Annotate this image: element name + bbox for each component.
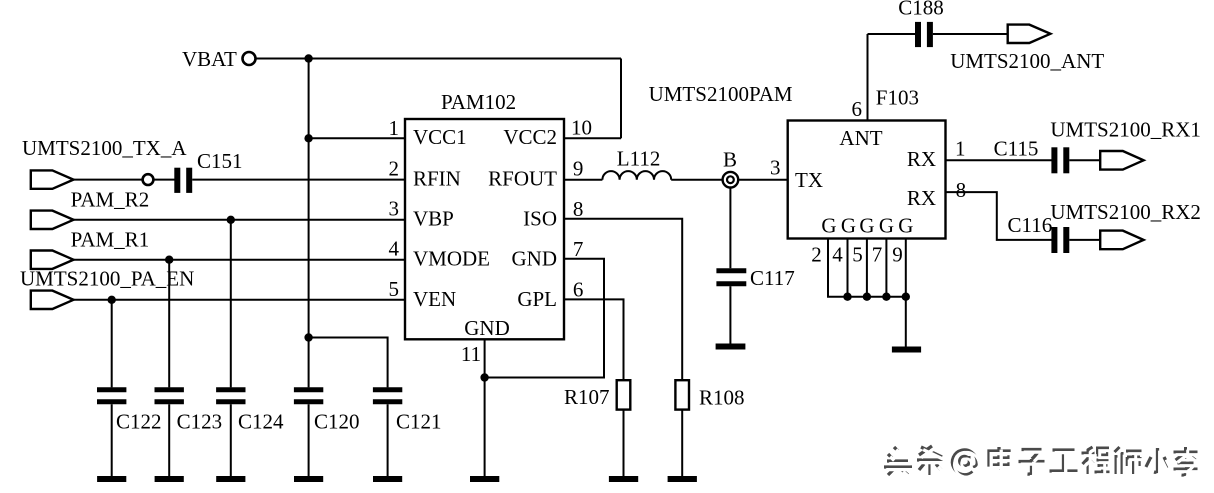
svg-text:C116: C116 bbox=[1008, 213, 1053, 237]
node B test point bbox=[723, 172, 739, 188]
wire main vertical rail bbox=[308, 58, 310, 388]
svg-text:5: 5 bbox=[852, 243, 863, 267]
svg-text:R107: R107 bbox=[564, 385, 610, 409]
wire pin1 VCC1 bbox=[309, 137, 405, 139]
ground C117 bbox=[716, 344, 746, 350]
junction PA_EN/C122 bbox=[108, 296, 116, 304]
test point circle bbox=[143, 174, 154, 185]
ground pin11 bbox=[470, 476, 499, 482]
wire pin1 RX to C115 bbox=[946, 159, 1052, 161]
wire G pin 2 bbox=[828, 239, 906, 297]
wire pin9 RFOUT to L112 bbox=[564, 179, 602, 181]
svg-text:VBAT: VBAT bbox=[182, 47, 237, 71]
svg-text:VMODE: VMODE bbox=[413, 247, 490, 271]
svg-text:GND: GND bbox=[512, 247, 558, 271]
svg-text:C115: C115 bbox=[994, 136, 1039, 160]
connector UMTS2100_PA_EN bbox=[31, 291, 74, 309]
wire G pin 9 to ground bbox=[905, 239, 907, 347]
svg-text:G: G bbox=[841, 213, 856, 237]
wire C116 to RX2 connector bbox=[1069, 239, 1101, 241]
capacitor C121 bbox=[373, 387, 402, 392]
svg-text:4: 4 bbox=[389, 237, 400, 261]
wire ANT pin6 vertical bbox=[867, 34, 869, 121]
svg-text:RFOUT: RFOUT bbox=[488, 167, 557, 191]
junction G7 bbox=[882, 293, 890, 301]
capacitor C120 bbox=[294, 387, 323, 392]
svg-text:C122: C122 bbox=[116, 410, 162, 434]
connector UMTS2100_RX1 bbox=[1100, 151, 1143, 170]
wire C120 to ground bbox=[308, 404, 310, 476]
wire pin6 GPL to R107 bbox=[564, 299, 624, 380]
capacitor C123 bbox=[155, 387, 184, 392]
svg-text:C151: C151 bbox=[197, 149, 243, 173]
svg-text:VBP: VBP bbox=[413, 207, 454, 231]
svg-text:4: 4 bbox=[832, 243, 843, 267]
resistor R107 bbox=[617, 380, 631, 409]
ground C124 bbox=[216, 476, 245, 482]
svg-text:C188: C188 bbox=[898, 0, 944, 20]
wire pin10 horizontal bbox=[564, 137, 621, 139]
junction rail/C120 bus bbox=[304, 333, 312, 341]
svg-text:PAM102: PAM102 bbox=[441, 90, 516, 114]
svg-text:2: 2 bbox=[389, 157, 400, 181]
svg-text:B: B bbox=[723, 148, 737, 172]
svg-text:8: 8 bbox=[956, 178, 967, 202]
svg-text:TX: TX bbox=[795, 168, 823, 192]
duplexer F103 box bbox=[788, 121, 946, 239]
wire pin11 GND down bbox=[484, 339, 486, 476]
wire node B to TX pin3 bbox=[738, 179, 788, 181]
svg-text:VCC1: VCC1 bbox=[413, 125, 467, 149]
wire C123 to ground bbox=[168, 404, 170, 476]
connector UMTS2100_TX_A bbox=[31, 170, 74, 188]
svg-text:6: 6 bbox=[573, 278, 584, 302]
ground R107 bbox=[609, 476, 638, 482]
wire C121 to ground bbox=[387, 404, 389, 476]
svg-text:GPL: GPL bbox=[517, 287, 557, 311]
wire C122 to ground bbox=[111, 404, 113, 476]
capacitor C124 bbox=[216, 387, 245, 392]
svg-text:F103: F103 bbox=[876, 86, 919, 110]
inductor L112 bbox=[602, 171, 671, 180]
wire G pin 7 bbox=[885, 239, 887, 297]
svg-text:GND: GND bbox=[464, 316, 510, 340]
wire C120 bus to C121 bbox=[309, 338, 388, 388]
wire ANT to C188 bbox=[868, 33, 916, 35]
wire pin8 ISO to R108 bbox=[564, 219, 682, 380]
svg-text:7: 7 bbox=[573, 237, 584, 261]
wire G pin 4 bbox=[847, 239, 849, 297]
junction G5 bbox=[863, 293, 871, 301]
junction R2/C124 bbox=[227, 216, 235, 224]
connector UMTS2100_RX2 bbox=[1100, 231, 1143, 250]
svg-text:VEN: VEN bbox=[413, 287, 456, 311]
svg-text:6: 6 bbox=[852, 97, 863, 121]
wire PAM_R1 to VMODE pin4 bbox=[74, 259, 406, 261]
svg-text:C120: C120 bbox=[314, 410, 360, 434]
wire R1 junction down to C123 bbox=[168, 260, 170, 388]
wire L112 to node B bbox=[671, 179, 722, 181]
junction rail/pin1 bbox=[304, 134, 312, 142]
wire pin7 GND to pin11 junction bbox=[485, 259, 604, 378]
svg-text:VCC2: VCC2 bbox=[503, 125, 557, 149]
capacitor C117 bbox=[716, 268, 746, 273]
wire TX_A to test point bbox=[74, 179, 143, 181]
junction pin11/pin7 bbox=[480, 373, 488, 381]
svg-text:RX: RX bbox=[907, 186, 936, 210]
wire R2 junction down to C124 bbox=[230, 220, 232, 388]
wire VBAT horizontal top bbox=[256, 58, 622, 60]
ground C121 bbox=[373, 476, 402, 482]
ground C123 bbox=[155, 476, 184, 482]
wire PAM_R2 to VBP pin3 bbox=[74, 219, 406, 221]
svg-text:3: 3 bbox=[389, 197, 400, 221]
capacitor C188 bbox=[915, 22, 921, 47]
wire C151 to RFIN pin2 bbox=[192, 179, 405, 181]
svg-text:7: 7 bbox=[872, 243, 883, 267]
junction G9 bbox=[902, 293, 910, 301]
svg-text:1: 1 bbox=[955, 136, 966, 160]
svg-text:RFIN: RFIN bbox=[413, 167, 461, 191]
capacitor C122 bbox=[97, 387, 126, 392]
svg-text:UMTS2100PAM: UMTS2100PAM bbox=[649, 82, 793, 106]
svg-text:UMTS2100_RX1: UMTS2100_RX1 bbox=[1050, 118, 1201, 142]
svg-text:PAM_R1: PAM_R1 bbox=[71, 228, 150, 252]
junction VBAT/main rail bbox=[304, 54, 312, 62]
wire G pin 5 bbox=[866, 239, 868, 297]
svg-text:9: 9 bbox=[573, 157, 584, 181]
ground F103 bbox=[892, 347, 921, 353]
svg-text:UMTS2100_RX2: UMTS2100_RX2 bbox=[1050, 200, 1201, 224]
wire R108 to ground bbox=[681, 410, 683, 477]
wire C124 to ground bbox=[230, 404, 232, 476]
op IC U1 PAM102 box bbox=[405, 119, 564, 339]
svg-text:UMTS2100_ANT: UMTS2100_ANT bbox=[950, 49, 1104, 73]
svg-text:C123: C123 bbox=[177, 410, 223, 434]
capacitor C151 bbox=[174, 168, 180, 193]
wire VCC2 feed vertical bbox=[620, 59, 622, 139]
svg-text:2: 2 bbox=[811, 243, 822, 267]
wire C115 to RX1 connector bbox=[1069, 159, 1101, 161]
junction R1/C123 bbox=[165, 256, 173, 264]
svg-text:L112: L112 bbox=[617, 147, 661, 171]
svg-text:8: 8 bbox=[573, 197, 584, 221]
connector UMTS2100_ANT bbox=[1008, 25, 1051, 43]
capacitor C115 bbox=[1051, 147, 1057, 173]
svg-text:3: 3 bbox=[770, 156, 781, 180]
wire R107 to ground bbox=[623, 410, 625, 477]
wire C188 to ANT connector bbox=[933, 33, 1008, 35]
wire PA_EN to VEN pin5 bbox=[74, 299, 406, 301]
svg-text:1: 1 bbox=[389, 116, 400, 140]
svg-text:G: G bbox=[879, 213, 894, 237]
wire pin8 RX to C116 bbox=[946, 192, 1052, 240]
wire node B down to C117 bbox=[729, 188, 731, 269]
connector PAM_R1 bbox=[31, 251, 74, 269]
svg-text:C124: C124 bbox=[238, 410, 284, 434]
ground C120 bbox=[294, 476, 323, 482]
junction G4 bbox=[843, 293, 851, 301]
svg-text:UMTS2100_PA_EN: UMTS2100_PA_EN bbox=[20, 267, 194, 291]
wire C117 to ground bbox=[729, 286, 731, 343]
svg-text:ANT: ANT bbox=[839, 126, 882, 150]
capacitor C116 bbox=[1051, 227, 1057, 253]
resistor R108 bbox=[675, 380, 689, 409]
svg-text:11: 11 bbox=[461, 342, 481, 366]
svg-text:5: 5 bbox=[389, 277, 400, 301]
svg-text:PAM_R2: PAM_R2 bbox=[71, 188, 150, 212]
svg-text:9: 9 bbox=[892, 243, 903, 267]
svg-text:RX: RX bbox=[907, 147, 936, 171]
svg-text:UMTS2100_TX_A: UMTS2100_TX_A bbox=[22, 136, 187, 160]
svg-text:C121: C121 bbox=[396, 410, 442, 434]
svg-text:C117: C117 bbox=[750, 266, 795, 290]
ground C122 bbox=[97, 476, 126, 482]
svg-text:ISO: ISO bbox=[523, 207, 557, 231]
VBAT terminal circle bbox=[243, 52, 256, 65]
svg-text:G: G bbox=[898, 213, 913, 237]
svg-text:10: 10 bbox=[571, 116, 592, 140]
wire test point to C151 bbox=[154, 179, 175, 181]
wire PA_EN junction down to C122 bbox=[111, 300, 113, 388]
connector PAM_R2 bbox=[31, 211, 74, 229]
svg-text:R108: R108 bbox=[699, 386, 745, 410]
svg-text:G: G bbox=[821, 213, 836, 237]
ground R108 bbox=[668, 476, 697, 482]
svg-text:G: G bbox=[859, 213, 874, 237]
